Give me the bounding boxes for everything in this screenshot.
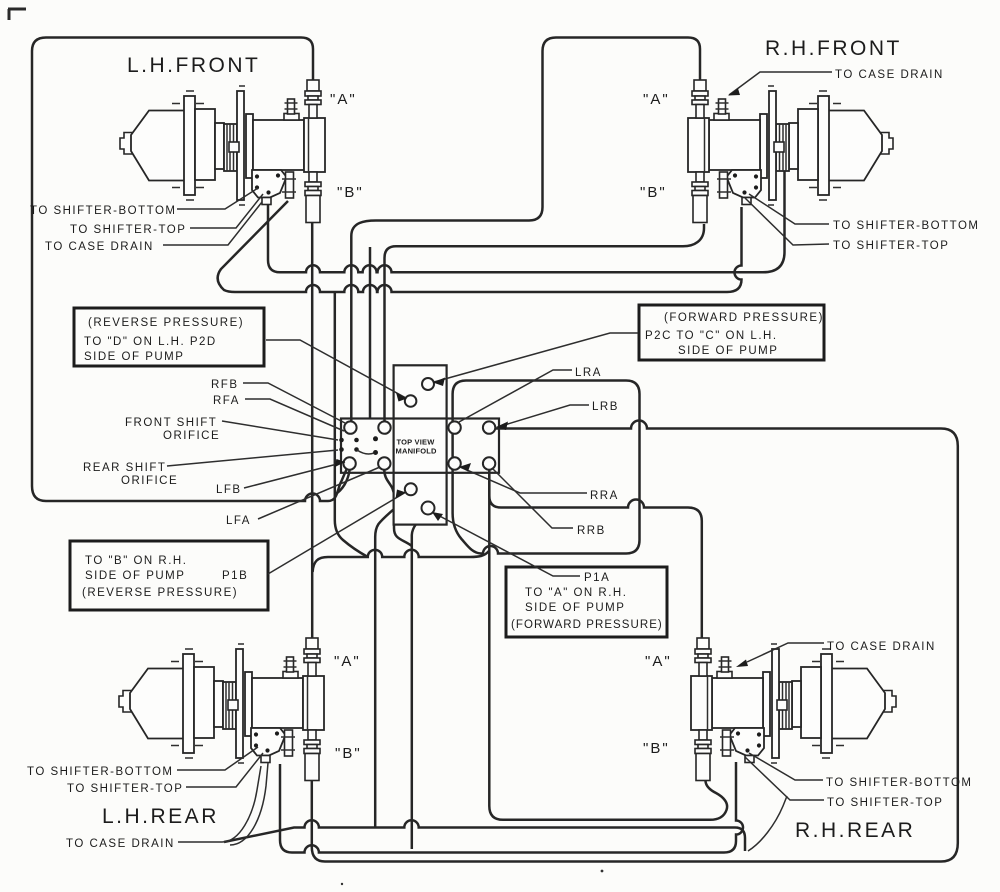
svg-text:P1A: P1A bbox=[584, 572, 610, 584]
leader TO CASE DRAIN (RHF) bbox=[729, 72, 832, 95]
wire: L.H. FRONT port B down to L.H. REAR port A bbox=[311, 223, 314, 638]
svg-text:SIDE OF PUMP: SIDE OF PUMP bbox=[678, 345, 778, 357]
svg-text:TO CASE DRAIN: TO CASE DRAIN bbox=[66, 838, 175, 850]
stray dot 2 bbox=[341, 883, 343, 885]
wire: L.H. FRONT shifter-top line across to R.H. FRONT case drain bbox=[268, 158, 785, 272]
svg-text:SIDE OF PUMP: SIDE OF PUMP bbox=[84, 351, 184, 363]
arrow at P2D bbox=[396, 393, 407, 402]
svg-text:TO SHIFTER-BOTTOM: TO SHIFTER-BOTTOM bbox=[833, 220, 979, 232]
motor R.H. REAR bbox=[691, 638, 896, 781]
svg-text:ORIFICE: ORIFICE bbox=[163, 430, 220, 442]
port RFB bbox=[344, 421, 356, 433]
port P2C bbox=[422, 378, 434, 390]
leader LRA bbox=[459, 370, 572, 422]
svg-text:FRONT SHIFT: FRONT SHIFT bbox=[125, 417, 217, 429]
leader LRB bbox=[498, 405, 589, 427]
leader RFA bbox=[245, 399, 344, 431]
port RFA bbox=[378, 421, 390, 433]
svg-text:RRA: RRA bbox=[590, 490, 619, 502]
callout box P1A bbox=[506, 567, 667, 637]
wire: R.H. REAR case drain sweep bbox=[748, 796, 787, 851]
svg-text:"B": "B" bbox=[335, 745, 362, 762]
leader RRB bbox=[493, 469, 573, 528]
svg-text:"A": "A" bbox=[334, 653, 361, 670]
corner scan mark bbox=[8, 9, 26, 20]
svg-text:R.H.FRONT: R.H.FRONT bbox=[765, 37, 902, 60]
svg-text:(REVERSE PRESSURE): (REVERSE PRESSURE) bbox=[82, 587, 238, 599]
leader TO SHIFTER-BOTTOM (RHF) bbox=[749, 194, 829, 224]
port P1A bbox=[422, 502, 435, 515]
leader TO CASE DRAIN (LHR) bbox=[178, 841, 222, 843]
orifice link curve bbox=[357, 450, 374, 454]
svg-text:(REVERSE PRESSURE): (REVERSE PRESSURE) bbox=[88, 317, 244, 329]
svg-text:SIDE OF PUMP: SIDE OF PUMP bbox=[85, 570, 185, 582]
wire: rear shifter bus across bottom bbox=[280, 762, 743, 853]
svg-text:TO "B" ON R.H.: TO "B" ON R.H. bbox=[85, 555, 187, 567]
svg-text:TO SHIFTER-BOTTOM: TO SHIFTER-BOTTOM bbox=[27, 766, 173, 778]
arrow at RHF case drain bbox=[728, 89, 740, 96]
port P1B bbox=[405, 483, 417, 495]
leader TO CASE DRAIN (RHR) bbox=[747, 643, 824, 662]
wire: manifold P1A port drop to bottom bus bbox=[412, 515, 426, 850]
manifold horizontal plate bbox=[341, 419, 499, 473]
port RRB bbox=[483, 457, 495, 469]
svg-text:RFB: RFB bbox=[211, 379, 239, 391]
svg-text:(FORWARD PRESSURE): (FORWARD PRESSURE) bbox=[511, 619, 663, 631]
motor L.H. REAR bbox=[119, 638, 324, 781]
svg-text:"A": "A" bbox=[645, 653, 672, 670]
leader TO SHIFTER-BOTTOM (RHR) bbox=[749, 753, 823, 780]
rear shift orifice dots bbox=[339, 447, 344, 452]
svg-text:P2C TO "C" ON L.H.: P2C TO "C" ON L.H. bbox=[645, 330, 778, 342]
wire: RRB drop to bottom and across to R.H. REAR port B bbox=[489, 470, 727, 820]
callout box P1B bbox=[70, 541, 268, 610]
leader RRA bbox=[460, 467, 587, 493]
arrow at P1B bbox=[396, 490, 407, 499]
arrow at RHR case drain bbox=[736, 660, 748, 668]
leader TO SHIFTER-TOP (LHF) bbox=[190, 194, 263, 228]
wire: R.H. FRONT port A to manifold RFB bbox=[351, 38, 700, 422]
svg-text:TO CASE DRAIN: TO CASE DRAIN bbox=[827, 641, 936, 653]
wire: front shift orifice feed drop bbox=[369, 247, 372, 419]
svg-text:"B": "B" bbox=[643, 740, 670, 757]
wire: L.H. FRONT case drain diagonal across to R.H. FRONT shifter bbox=[218, 201, 742, 292]
svg-text:LFB: LFB bbox=[216, 484, 242, 496]
svg-text:L.H.FRONT: L.H.FRONT bbox=[127, 54, 260, 77]
svg-text:LRB: LRB bbox=[592, 401, 619, 413]
svg-text:MANIFOLD: MANIFOLD bbox=[396, 447, 438, 456]
port RRA bbox=[448, 457, 460, 469]
svg-text:TO "D" ON L.H. P2D: TO "D" ON L.H. P2D bbox=[84, 336, 217, 348]
port LRA bbox=[448, 421, 460, 433]
svg-text:R.H.REAR: R.H.REAR bbox=[795, 819, 915, 842]
leader TO CASE DRAIN (LHF) bbox=[163, 202, 262, 245]
svg-text:RRB: RRB bbox=[577, 525, 606, 537]
svg-text:TO SHIFTER-TOP: TO SHIFTER-TOP bbox=[67, 783, 183, 795]
svg-text:TO SHIFTER-TOP: TO SHIFTER-TOP bbox=[70, 224, 186, 236]
svg-text:TO CASE DRAIN: TO CASE DRAIN bbox=[835, 69, 944, 81]
leader TO SHIFTER-BOTTOM (LHR) bbox=[177, 747, 258, 770]
svg-text:LRA: LRA bbox=[575, 367, 602, 379]
leader LFA bbox=[258, 467, 380, 519]
svg-text:"B": "B" bbox=[640, 184, 667, 201]
svg-text:TOP VIEW: TOP VIEW bbox=[397, 438, 436, 447]
wire: LFB port stub bbox=[335, 470, 350, 495]
leader P1B bbox=[268, 492, 406, 574]
svg-text:LFA: LFA bbox=[226, 515, 251, 527]
wire: manifold P1B port drop to bottom bus bbox=[375, 496, 408, 827]
wire: L.H. FRONT port A loop around motor to manifold LFB bbox=[32, 38, 347, 502]
svg-text:TO SHIFTER-TOP: TO SHIFTER-TOP bbox=[833, 240, 949, 252]
svg-text:REAR SHIFT: REAR SHIFT bbox=[83, 462, 166, 474]
arrow at P1A bbox=[432, 512, 443, 521]
svg-text:"A": "A" bbox=[330, 91, 357, 108]
stray dot 1 bbox=[601, 870, 604, 873]
wire: bottom bus with case-drain tail (L.H. REAR) bbox=[224, 820, 745, 851]
wire: LRB long loop right side and bottom to L.H. REAR port B bbox=[312, 421, 958, 862]
svg-text:"B": "B" bbox=[337, 184, 364, 201]
wire: manifold LFA drop joining P1A leg bbox=[384, 470, 412, 546]
svg-text:TO SHIFTER-BOTTOM: TO SHIFTER-BOTTOM bbox=[30, 205, 176, 217]
arrow at RRA bbox=[460, 463, 472, 472]
leader P2C bbox=[434, 333, 638, 382]
svg-text:(FORWARD PRESSURE): (FORWARD PRESSURE) bbox=[664, 312, 824, 324]
svg-text:"A": "A" bbox=[643, 91, 670, 108]
leader P2D bbox=[266, 340, 406, 398]
leader P1A bbox=[432, 512, 580, 576]
svg-text:P1B: P1B bbox=[222, 570, 248, 582]
svg-text:ORIFICE: ORIFICE bbox=[121, 475, 178, 487]
motor L.H. FRONT bbox=[120, 80, 325, 223]
leader LFB bbox=[244, 462, 345, 488]
front shift orifice dots bbox=[339, 438, 344, 443]
svg-text:RFA: RFA bbox=[213, 395, 240, 407]
svg-text:SIDE OF PUMP: SIDE OF PUMP bbox=[525, 602, 625, 614]
wire: RRB branch across to R.H. REAR port A bbox=[489, 474, 702, 638]
leader TO SHIFTER-TOP (RHR) bbox=[745, 757, 824, 800]
arrow at LFB bbox=[334, 459, 345, 468]
leader TO SHIFTER-TOP (RHF) bbox=[745, 198, 829, 245]
port LRB bbox=[483, 421, 495, 433]
wire: lower bus from L.H. REAR port A to RRB drop bbox=[313, 550, 489, 572]
wire: LRA loop around rear ports bbox=[453, 381, 640, 554]
wire: manifold LFB drop and sweep to lower bus bbox=[335, 293, 367, 557]
motor R.H. FRONT bbox=[688, 80, 893, 223]
port P2D bbox=[405, 395, 417, 407]
svg-text:L.H.REAR: L.H.REAR bbox=[102, 805, 219, 828]
svg-text:TO "A" ON R.H.: TO "A" ON R.H. bbox=[525, 587, 627, 599]
svg-text:TO SHIFTER-TOP: TO SHIFTER-TOP bbox=[827, 797, 943, 809]
callout box P2D bbox=[74, 308, 264, 366]
arrow at P2C bbox=[433, 378, 445, 387]
wire: manifold RFA to R.H. FRONT port B bbox=[385, 224, 705, 422]
leader RFB bbox=[243, 383, 345, 423]
leader REAR SHIFT ORIFICE bbox=[167, 450, 338, 466]
callout box P2C bbox=[639, 305, 824, 360]
arrow at LRB bbox=[496, 422, 508, 431]
port LFA bbox=[378, 457, 390, 469]
svg-text:TO SHIFTER-BOTTOM: TO SHIFTER-BOTTOM bbox=[826, 777, 972, 789]
svg-text:TO CASE DRAIN: TO CASE DRAIN bbox=[45, 241, 154, 253]
leader TO SHIFTER-TOP (LHR) bbox=[186, 753, 263, 787]
leader FRONT SHIFT ORIFICE bbox=[222, 421, 338, 440]
port LFB bbox=[343, 457, 355, 469]
manifold vertical plate bbox=[394, 365, 447, 524]
leader TO SHIFTER-BOTTOM (LHF) bbox=[177, 188, 258, 209]
